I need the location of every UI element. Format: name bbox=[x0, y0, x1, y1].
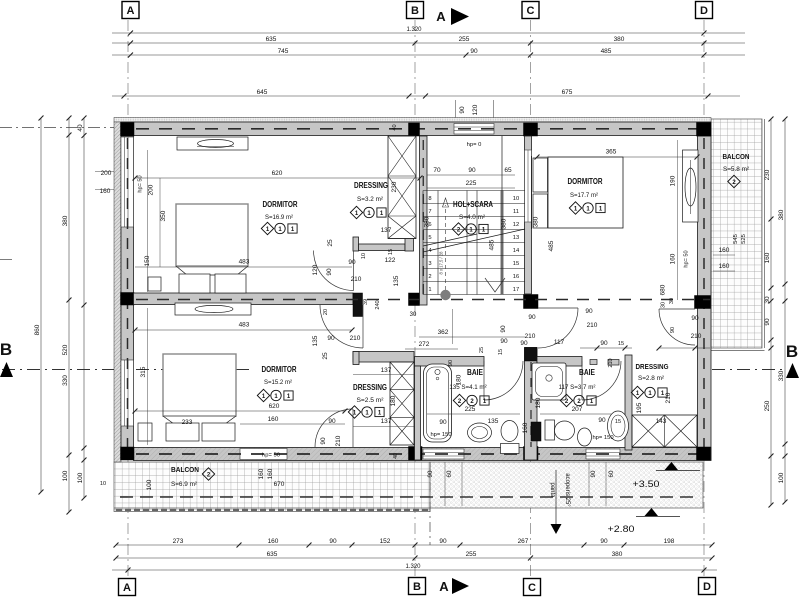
axis dashes left wall bbox=[127, 138, 129, 452]
svg-text:BALCON: BALCON bbox=[723, 152, 750, 161]
wc baie2 bbox=[531, 422, 541, 441]
svg-text:190: 190 bbox=[670, 175, 677, 186]
svg-text:15: 15 bbox=[615, 419, 621, 425]
svg-text:225: 225 bbox=[465, 406, 476, 413]
svg-text:137: 137 bbox=[381, 227, 392, 234]
svg-text:160: 160 bbox=[258, 468, 265, 479]
axis dashes middle wall bbox=[136, 299, 710, 301]
svg-text:C: C bbox=[527, 5, 535, 17]
svg-text:+3.50: +3.50 bbox=[633, 479, 660, 490]
svg-text:267: 267 bbox=[518, 538, 529, 545]
level +3.50 bbox=[665, 462, 679, 470]
left dim line 40/330/100 bbox=[83, 118, 85, 498]
svg-text:90: 90 bbox=[327, 335, 335, 342]
svg-text:90: 90 bbox=[600, 538, 608, 545]
svg-text:S=16.9 m²: S=16.9 m² bbox=[265, 214, 294, 221]
door dressing2.8 bbox=[659, 309, 695, 345]
svg-text:40: 40 bbox=[392, 124, 398, 130]
column D top bbox=[697, 123, 712, 137]
stair dims bbox=[427, 174, 515, 176]
svg-text:1.320: 1.320 bbox=[405, 564, 421, 570]
svg-text:A: A bbox=[123, 582, 131, 594]
svg-text:240: 240 bbox=[375, 300, 381, 309]
grid axis A bbox=[127, 20, 129, 122]
dim 483 dormitor2 bbox=[135, 329, 352, 331]
svg-text:90: 90 bbox=[326, 268, 333, 276]
svg-text:670: 670 bbox=[274, 481, 285, 488]
svg-text:635: 635 bbox=[267, 551, 278, 558]
svg-text:16: 16 bbox=[513, 274, 519, 280]
svg-text:hp= 50: hp= 50 bbox=[262, 453, 280, 459]
dimension row 635/255/380 top bbox=[112, 42, 745, 44]
svg-text:230: 230 bbox=[764, 169, 771, 180]
section line B left margin bbox=[2, 369, 116, 371]
svg-text:S=5.8 m²: S=5.8 m² bbox=[723, 166, 749, 173]
door frame bits east of baie2 bbox=[590, 360, 597, 365]
wall bottom exterior bbox=[134, 448, 712, 461]
svg-text:645: 645 bbox=[257, 89, 268, 96]
axis dashes top wall bbox=[136, 128, 700, 130]
svg-text:160: 160 bbox=[100, 188, 111, 195]
svg-text:39: 39 bbox=[363, 299, 369, 305]
svg-text:545: 545 bbox=[733, 234, 739, 244]
svg-text:160: 160 bbox=[268, 416, 279, 423]
svg-text:620: 620 bbox=[272, 170, 283, 177]
svg-text:860: 860 bbox=[34, 324, 41, 335]
svg-text:675: 675 bbox=[562, 89, 573, 96]
stairs hol+scara bbox=[423, 191, 525, 295]
svg-text:25: 25 bbox=[322, 352, 329, 360]
svg-text:200: 200 bbox=[101, 170, 112, 177]
stair walk line bbox=[445, 205, 447, 290]
wall pier hall bbox=[353, 293, 363, 317]
window dim 90/120 above stair window bbox=[455, 100, 457, 118]
left dim line 860 bbox=[40, 118, 42, 492]
svg-text:10: 10 bbox=[513, 196, 519, 202]
wall left exterior bbox=[121, 136, 134, 448]
axis stub left wall bbox=[0, 127, 114, 129]
svg-text:90: 90 bbox=[459, 106, 466, 114]
svg-text:S=6.9 m²: S=6.9 m² bbox=[171, 481, 197, 488]
sink baie1 bbox=[468, 423, 492, 442]
svg-text:13: 13 bbox=[513, 235, 519, 241]
svg-text:100: 100 bbox=[77, 472, 84, 483]
wall dressing bottom bbox=[359, 244, 406, 251]
svg-text:160: 160 bbox=[764, 252, 771, 263]
svg-text:25: 25 bbox=[479, 347, 485, 353]
svg-text:A: A bbox=[436, 9, 446, 24]
svg-text:180: 180 bbox=[390, 395, 397, 406]
svg-text:40: 40 bbox=[393, 453, 399, 459]
dimension row bottom 635/255/380 bbox=[116, 557, 712, 559]
slope arrow panta acoperis bbox=[555, 470, 557, 524]
svg-text:635: 635 bbox=[266, 36, 277, 43]
window left wall lower bbox=[121, 360, 134, 426]
terrace axis dashed bbox=[120, 496, 700, 498]
svg-text:160: 160 bbox=[670, 253, 677, 264]
svg-text:30: 30 bbox=[661, 302, 667, 308]
svg-text:90: 90 bbox=[590, 470, 597, 477]
column B top bbox=[409, 123, 420, 136]
grid marker D bottom bbox=[699, 578, 716, 595]
svg-text:1.320: 1.320 bbox=[406, 27, 422, 33]
svg-text:S=4.0 m²: S=4.0 m² bbox=[459, 214, 486, 221]
dimension row bottom segments bbox=[116, 544, 712, 546]
nightstand bedroom1 bbox=[148, 277, 161, 291]
svg-text:90: 90 bbox=[448, 360, 454, 366]
svg-text:70: 70 bbox=[433, 167, 441, 174]
svg-text:30: 30 bbox=[410, 312, 417, 318]
svg-text:315: 315 bbox=[140, 366, 147, 377]
svg-text:225: 225 bbox=[466, 180, 477, 187]
svg-text:365: 365 bbox=[606, 149, 617, 156]
svg-text:20: 20 bbox=[323, 309, 329, 315]
right dim line 380/330/100 bbox=[784, 119, 786, 502]
svg-text:BALCON: BALCON bbox=[171, 465, 199, 474]
svg-text:380: 380 bbox=[533, 216, 540, 227]
section line B right margin bbox=[712, 369, 786, 371]
svg-text:60: 60 bbox=[608, 470, 615, 477]
grid marker B top bbox=[407, 2, 424, 19]
svg-text:90: 90 bbox=[600, 340, 608, 347]
dresser bedroom2 bbox=[175, 303, 251, 315]
svg-text:7: 7 bbox=[428, 209, 431, 215]
svg-text:90: 90 bbox=[598, 417, 606, 424]
svg-text:15: 15 bbox=[513, 261, 519, 267]
bed bedroom2 bbox=[163, 354, 236, 416]
svg-text:485: 485 bbox=[601, 48, 612, 55]
svg-text:90: 90 bbox=[348, 259, 356, 266]
door dressing3.2 bbox=[314, 251, 354, 291]
svg-text:210: 210 bbox=[525, 333, 536, 340]
wall C vertical (dormitor west) bbox=[525, 136, 532, 294]
right dim line 230/160/30/90/250 bbox=[770, 119, 772, 505]
svg-text:137: 137 bbox=[381, 367, 392, 374]
svg-text:180: 180 bbox=[535, 397, 542, 408]
dresser bedroom1 bbox=[177, 137, 248, 150]
svg-text:90: 90 bbox=[670, 327, 676, 333]
dimension row 1.320 top bbox=[112, 32, 745, 34]
svg-text:160: 160 bbox=[267, 468, 274, 479]
axis dashes right wall bbox=[703, 138, 705, 455]
svg-text:90: 90 bbox=[468, 167, 476, 174]
svg-text:90: 90 bbox=[585, 308, 593, 315]
svg-text:160: 160 bbox=[719, 263, 730, 270]
svg-text:hp= 50: hp= 50 bbox=[138, 175, 144, 192]
svg-text:HOL+SCARA: HOL+SCARA bbox=[453, 200, 493, 209]
svg-text:207: 207 bbox=[572, 406, 583, 413]
svg-text:362: 362 bbox=[438, 329, 449, 336]
window/radiator dormitor3 bbox=[683, 150, 699, 222]
svg-text:B: B bbox=[786, 342, 798, 361]
svg-text:40: 40 bbox=[77, 124, 84, 132]
svg-text:90: 90 bbox=[528, 314, 536, 321]
svg-text:10: 10 bbox=[361, 253, 367, 259]
axis dashes bottom wall bbox=[136, 453, 705, 455]
wardrobe dressing 2.5 bbox=[390, 362, 414, 445]
grid marker C bottom bbox=[524, 579, 541, 596]
grid marker C top bbox=[522, 2, 539, 19]
grid axis C bbox=[530, 20, 532, 123]
terrace tiles +3.50 bbox=[430, 462, 703, 508]
svg-text:160: 160 bbox=[268, 538, 279, 545]
dim 620 dormitor1 bbox=[135, 177, 420, 179]
dimension row 745/90/485 top bbox=[112, 54, 745, 56]
wall dressing/stair vertical bbox=[420, 136, 428, 305]
wall middle horizontal bbox=[134, 293, 354, 305]
svg-text:1: 1 bbox=[428, 287, 431, 293]
svg-text:90: 90 bbox=[320, 437, 327, 445]
svg-text:620: 620 bbox=[269, 403, 280, 410]
svg-text:A: A bbox=[127, 5, 135, 17]
balcony bottom-left tiles bbox=[114, 462, 430, 512]
column B bottom bbox=[409, 447, 423, 461]
svg-text:hp= 0: hp= 0 bbox=[467, 142, 482, 148]
svg-text:485: 485 bbox=[489, 239, 496, 250]
svg-text:30: 30 bbox=[764, 296, 771, 304]
window/door lower bedroom bottom wall bbox=[240, 449, 287, 460]
svg-text:BAIE: BAIE bbox=[467, 368, 483, 377]
svg-text:380: 380 bbox=[424, 216, 431, 227]
svg-text:14: 14 bbox=[513, 248, 520, 254]
dimension row bottom 1.320 bbox=[112, 569, 717, 571]
wc baie1 bbox=[501, 421, 518, 442]
wardrobe dressing 3.2 bbox=[388, 136, 416, 239]
svg-text:483: 483 bbox=[239, 322, 250, 329]
bed bedroom1 bbox=[176, 204, 248, 266]
svg-text:60: 60 bbox=[446, 470, 453, 477]
wardrobe dressing 2.8 bbox=[632, 415, 697, 447]
bathtub baie1 bbox=[424, 364, 452, 442]
svg-text:160: 160 bbox=[522, 422, 529, 433]
column A bottom bbox=[121, 447, 135, 460]
stair arrow down flight bbox=[485, 278, 505, 292]
svg-text:12: 12 bbox=[513, 222, 519, 228]
svg-text:90: 90 bbox=[520, 340, 528, 347]
svg-text:S=3.2 m²: S=3.2 m² bbox=[357, 196, 384, 203]
window baie2 bottom wall bbox=[586, 449, 620, 459]
svg-text:230: 230 bbox=[391, 181, 398, 192]
svg-text:330: 330 bbox=[62, 375, 69, 386]
nightstand bedroom2 bbox=[138, 423, 152, 441]
wall top exterior bbox=[121, 122, 711, 136]
svg-text:380: 380 bbox=[62, 215, 69, 226]
column C mid bbox=[524, 295, 539, 309]
svg-text:485: 485 bbox=[548, 240, 555, 251]
svg-text:117 S=3.7 m²: 117 S=3.7 m² bbox=[559, 384, 596, 391]
grid marker B bottom bbox=[409, 578, 426, 595]
svg-text:15: 15 bbox=[388, 249, 394, 255]
wall baie2 top bbox=[537, 357, 582, 367]
svg-text:255: 255 bbox=[466, 551, 477, 558]
svg-text:65: 65 bbox=[504, 167, 512, 174]
svg-text:210: 210 bbox=[350, 335, 361, 342]
svg-text:DRESSING: DRESSING bbox=[354, 181, 388, 190]
svg-text:B: B bbox=[411, 5, 419, 17]
grid axis B bbox=[414, 20, 416, 123]
stairwell east line bbox=[501, 136, 503, 294]
balcony right tiles bbox=[711, 119, 762, 348]
svg-text:90: 90 bbox=[328, 418, 336, 425]
svg-text:200: 200 bbox=[148, 184, 155, 195]
column B mid bbox=[409, 293, 420, 306]
svg-text:198: 198 bbox=[664, 538, 675, 545]
svg-text:hp= 150: hp= 150 bbox=[430, 432, 451, 438]
svg-text:panta: panta bbox=[549, 482, 555, 498]
svg-text:90: 90 bbox=[764, 318, 771, 326]
window stairwell top wall bbox=[454, 124, 494, 135]
grid marker A bottom bbox=[119, 579, 136, 596]
svg-text:135 S=4.1 m²: 135 S=4.1 m² bbox=[449, 384, 486, 391]
svg-text:B: B bbox=[413, 581, 421, 593]
bed bedroom3 bbox=[548, 157, 623, 228]
left dim line 380/520/330 bbox=[68, 118, 70, 512]
svg-text:D: D bbox=[703, 581, 711, 593]
svg-text:5: 5 bbox=[428, 235, 431, 241]
svg-text:250: 250 bbox=[764, 400, 771, 411]
svg-text:hp= 150: hp= 150 bbox=[592, 435, 613, 441]
grid marker A top bbox=[122, 2, 139, 19]
svg-text:8: 8 bbox=[428, 196, 431, 202]
column C bottom bbox=[524, 447, 539, 461]
svg-text:A: A bbox=[439, 579, 449, 594]
svg-text:90: 90 bbox=[470, 48, 478, 55]
column D mid bbox=[695, 296, 711, 309]
svg-text:90: 90 bbox=[439, 538, 447, 545]
svg-text:135: 135 bbox=[393, 275, 400, 286]
svg-text:122: 122 bbox=[385, 257, 396, 264]
svg-text:acoperis 25°: acoperis 25° bbox=[564, 473, 570, 507]
svg-text:160: 160 bbox=[719, 247, 730, 254]
svg-text:15: 15 bbox=[498, 349, 504, 355]
svg-text:100: 100 bbox=[778, 472, 785, 483]
dim 483 dormitor1 bbox=[135, 266, 352, 268]
svg-text:380: 380 bbox=[614, 36, 625, 43]
svg-text:255: 255 bbox=[459, 36, 470, 43]
svg-text:520: 520 bbox=[62, 344, 69, 355]
svg-text:272: 272 bbox=[419, 341, 430, 348]
svg-text:2: 2 bbox=[428, 274, 431, 280]
svg-text:680: 680 bbox=[660, 284, 667, 295]
svg-text:117: 117 bbox=[554, 339, 565, 346]
svg-text:C: C bbox=[528, 582, 536, 594]
column A top bbox=[121, 123, 135, 137]
svg-text:210: 210 bbox=[691, 333, 702, 340]
svg-text:DRESSING: DRESSING bbox=[636, 362, 669, 371]
shower baie2 bbox=[532, 363, 566, 400]
svg-text:135: 135 bbox=[312, 335, 319, 346]
svg-text:273: 273 bbox=[173, 538, 184, 545]
svg-text:15: 15 bbox=[618, 341, 624, 347]
svg-text:350: 350 bbox=[160, 210, 167, 221]
svg-text:3: 3 bbox=[428, 261, 431, 267]
svg-text:525: 525 bbox=[741, 234, 747, 244]
door dressing2.5 bbox=[315, 409, 353, 447]
section line B through plan bbox=[136, 369, 252, 371]
svg-text:S=2.5 m²: S=2.5 m² bbox=[357, 397, 385, 404]
svg-text:120: 120 bbox=[472, 104, 479, 115]
wall baie1 west/top bbox=[415, 357, 485, 367]
svg-text:90: 90 bbox=[691, 315, 699, 322]
svg-text:S=15.2 m²: S=15.2 m² bbox=[264, 379, 293, 386]
svg-text:DRESSING: DRESSING bbox=[353, 383, 387, 392]
svg-text:90: 90 bbox=[427, 470, 434, 477]
svg-text:30: 30 bbox=[669, 298, 675, 304]
door corridor baie2 bbox=[538, 308, 578, 348]
svg-text:DORMITOR: DORMITOR bbox=[262, 365, 297, 374]
wall baie1/baie2 vertical bbox=[525, 348, 538, 461]
svg-text:137: 137 bbox=[381, 418, 392, 425]
grid marker D top bbox=[696, 2, 713, 19]
svg-text:195: 195 bbox=[636, 402, 643, 413]
svg-text:135: 135 bbox=[488, 418, 499, 425]
grid axis D bbox=[703, 20, 705, 122]
door dormitor15.2 bbox=[320, 305, 363, 348]
svg-text:8 x 17,5 / 28: 8 x 17,5 / 28 bbox=[439, 251, 444, 275]
column A mid bbox=[121, 293, 135, 306]
window baie1 bottom wall bbox=[423, 449, 464, 459]
level +2.80 bbox=[645, 508, 659, 516]
svg-text:143: 143 bbox=[656, 418, 667, 425]
svg-text:11: 11 bbox=[513, 209, 519, 215]
svg-text:25: 25 bbox=[327, 239, 334, 247]
svg-text:483: 483 bbox=[239, 259, 250, 266]
svg-text:S=17.7 m²: S=17.7 m² bbox=[570, 192, 599, 199]
svg-text:380: 380 bbox=[501, 218, 508, 229]
svg-text:120: 120 bbox=[312, 264, 319, 275]
window left wall bbox=[121, 137, 134, 227]
svg-text:+2.80: +2.80 bbox=[608, 524, 635, 535]
svg-text:210: 210 bbox=[665, 392, 672, 403]
svg-text:90: 90 bbox=[500, 338, 508, 345]
door baie1 bbox=[484, 361, 523, 400]
svg-text:380: 380 bbox=[778, 209, 785, 220]
svg-text:152: 152 bbox=[380, 538, 391, 545]
insulation strip top bbox=[114, 118, 711, 123]
svg-text:100: 100 bbox=[62, 470, 69, 481]
sink baie2 bbox=[578, 428, 592, 446]
svg-text:210: 210 bbox=[608, 358, 614, 367]
stair break line bbox=[423, 229, 525, 252]
dim 620/160 dormitor2 bbox=[135, 410, 345, 412]
svg-text:210: 210 bbox=[335, 435, 342, 446]
svg-text:100: 100 bbox=[146, 479, 153, 490]
svg-text:hp= 50: hp= 50 bbox=[684, 250, 690, 267]
column C top bbox=[524, 123, 538, 136]
svg-text:DORMITOR: DORMITOR bbox=[263, 200, 298, 209]
svg-text:S=2.8 m²: S=2.8 m² bbox=[638, 375, 664, 382]
dimension row 645/675 top bbox=[112, 95, 740, 97]
svg-text:17: 17 bbox=[513, 287, 519, 293]
svg-text:B: B bbox=[0, 340, 12, 359]
tub shaft bbox=[608, 411, 629, 441]
svg-text:745: 745 bbox=[278, 48, 289, 55]
wall right exterior bbox=[698, 136, 712, 460]
svg-text:90: 90 bbox=[500, 325, 507, 333]
wall dressing2.8 west bbox=[625, 355, 632, 450]
stair start dot bbox=[440, 290, 450, 300]
svg-text:233: 233 bbox=[182, 419, 193, 426]
svg-text:BAIE: BAIE bbox=[579, 368, 595, 377]
svg-text:DORMITOR: DORMITOR bbox=[568, 177, 603, 186]
insulation strip left bbox=[114, 122, 121, 462]
wall dressing2.5 top bbox=[353, 352, 414, 363]
svg-text:330: 330 bbox=[778, 370, 785, 381]
svg-text:10: 10 bbox=[100, 481, 106, 487]
column D bottom bbox=[697, 447, 711, 460]
svg-text:90: 90 bbox=[439, 419, 447, 426]
svg-text:D: D bbox=[700, 5, 708, 17]
